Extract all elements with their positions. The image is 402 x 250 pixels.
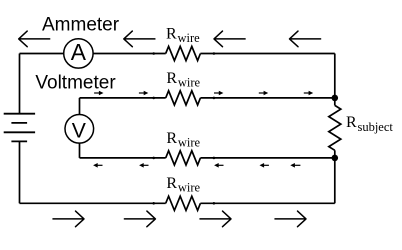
junction node lower (R_subject bottom) [332,155,339,162]
current arrow bottom 1 (right) [53,211,84,227]
wire left vertical upper [19,54,21,114]
resistor R_wire (row 2) [166,91,201,105]
svg-text:Rwire: Rwire [166,70,200,89]
svg-text:V: V [72,119,87,142]
sense arrow row3 c (left) [218,164,223,166]
sense arrow row3 e (left) [295,164,301,166]
pin dot row1 left [152,52,155,55]
sense arrow row3 d (left) [264,164,269,166]
current arrow bottom 3 (right) [200,211,231,227]
battery B1 plate short bottom [11,140,27,142]
pin dot row2 left [152,97,155,100]
pin dot row3 left [152,157,155,160]
pin dot row2 right [213,97,216,100]
wire voltmeter bottom stub [79,143,81,158]
battery B1 plate long bottom [4,131,35,133]
resistor R_wire (top row) [166,46,201,60]
pin dot row1 right [213,52,216,55]
voltmeter U2 circle [65,115,94,144]
sense arrow row2 a (right) [94,92,99,94]
pin dot row3 right [213,157,216,160]
ammeter U1 circle [64,39,93,68]
current arrow top 1 (left) [19,31,50,47]
wire top right [200,53,334,55]
pin dot row4 left [152,202,155,205]
sense arrow row2 d (right) [259,92,264,94]
pin dot row4 right [213,202,216,205]
svg-text:Rsubject: Rsubject [346,114,393,134]
sense arrow row3 a (left) [97,164,102,166]
current arrow bottom 2 (right) [124,211,155,227]
wire top-left horizontal [20,53,64,55]
svg-text:Ammeter: Ammeter [42,15,120,36]
wire row3 right [200,157,334,159]
sense arrow row3 b (left) [143,164,148,166]
wire bottom right [200,202,334,204]
svg-text:Rwire: Rwire [166,175,200,194]
current arrow bottom 4 (right) [275,211,306,227]
current arrow top 3 (left) [214,31,245,47]
wire voltmeter top stub [79,98,81,115]
wire left vertical lower [19,141,21,203]
wire bottom left [20,202,166,204]
wire row3 (voltage sense bottom) [80,157,166,159]
svg-text:A: A [71,39,87,65]
wire right vertical upper [334,54,336,106]
current arrow top 2 (left) [124,31,155,47]
sense arrow row2 e (right) [304,92,309,94]
wire top middle (ammeter to R_wire1) [93,53,166,55]
resistor R_wire (row 3) [166,151,201,165]
wire right vertical lower [334,150,336,203]
junction node upper (R_subject top) [332,95,339,102]
svg-text:Voltmeter: Voltmeter [35,72,116,93]
svg-text:Rwire: Rwire [166,25,200,44]
resistor R_wire (bottom row) [166,196,201,210]
battery B1 plate short [11,122,27,124]
wire row2 right [200,97,334,99]
current arrow top 4 (left) [290,31,321,47]
sense arrow row2 c (right) [214,92,219,94]
battery B1 plate long top [4,113,35,115]
svg-text:Rwire: Rwire [166,130,200,149]
wire row2 (voltage sense top) [80,97,166,99]
sense arrow row2 b (right) [139,92,144,94]
resistor R_subject [329,105,341,150]
